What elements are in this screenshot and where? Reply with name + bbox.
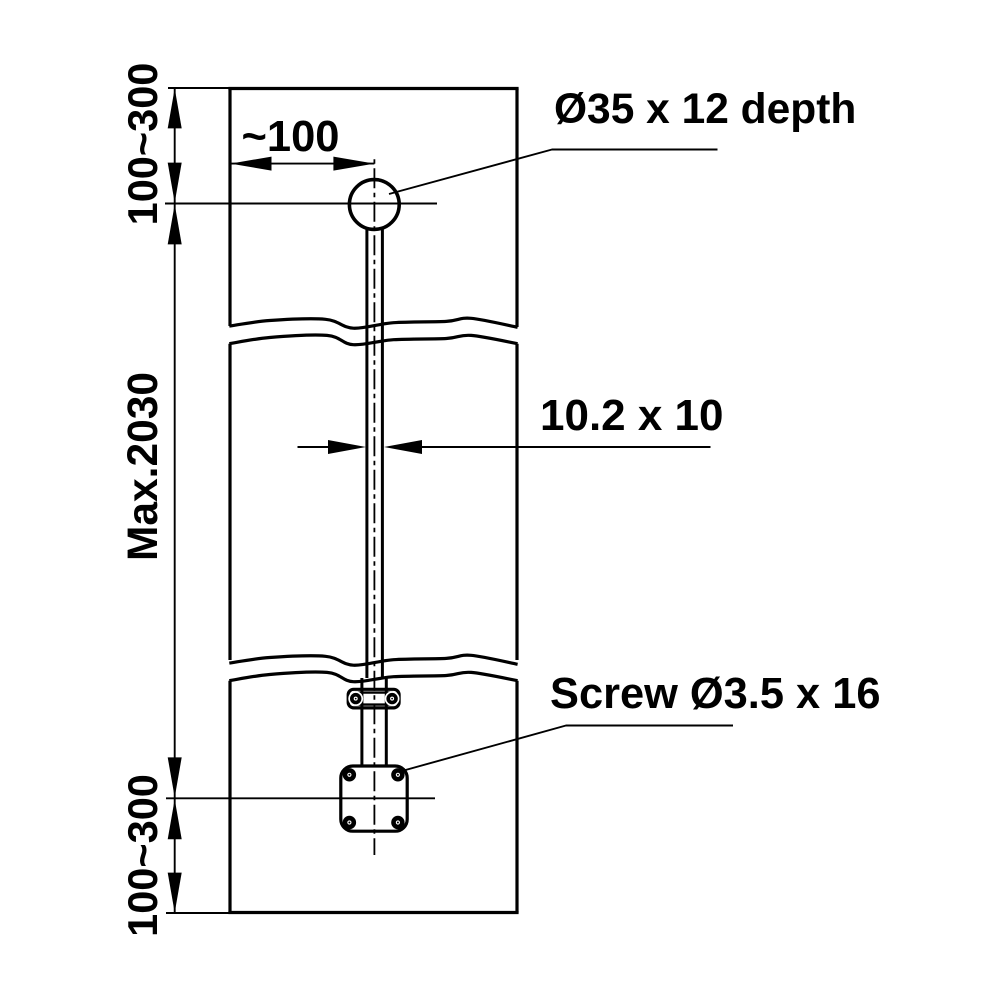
svg-text:Max.2030: Max.2030 <box>120 372 167 561</box>
bottom extension line <box>166 912 230 914</box>
leader line to Ø35 label <box>389 150 718 195</box>
arrow right of ~100 <box>333 157 374 171</box>
bracket screw left <box>348 691 363 706</box>
svg-text:10.2 x 10: 10.2 x 10 <box>540 391 724 440</box>
break line (lower wave of first break) <box>229 335 517 345</box>
rod (lower spindle section, wider double line) <box>362 678 386 766</box>
break line (lower wave of second break) <box>229 672 517 682</box>
dimension line 10.2 x 10 (left segment) <box>298 446 330 448</box>
clamp bracket inner outline <box>352 693 395 705</box>
door panel section 2 outline <box>230 344 517 660</box>
door panel section 3 outline <box>228 681 518 913</box>
clamp bracket <box>348 689 399 708</box>
circle horizontal centerline <box>165 203 437 205</box>
plate screw top-right <box>391 768 404 781</box>
arrow down at panel bottom <box>168 873 182 913</box>
leader line to Screw label <box>406 726 734 771</box>
arrowheads <box>168 88 422 912</box>
arrow down at circle centerline <box>168 163 182 203</box>
bracket screw right <box>385 691 400 706</box>
arrow pointing left at rod right edge <box>384 440 422 454</box>
vertical dimension line <box>174 88 176 914</box>
plate screw top-left <box>343 768 356 781</box>
arrow down at plate centerline <box>168 757 182 797</box>
vertical dash-dot centerline <box>373 158 375 855</box>
svg-text:100~300: 100~300 <box>119 774 166 937</box>
break line (upper wave of first break) <box>229 318 517 328</box>
rod (upper/middle sections, double line) <box>367 229 383 678</box>
svg-text:~100: ~100 <box>242 113 340 161</box>
arrow left of ~100 <box>231 157 272 171</box>
top extension line <box>168 87 230 89</box>
mounting plate <box>341 766 407 831</box>
dimension line 10.2 x 10 (right segment) <box>421 446 711 448</box>
top pivot circle (35 mm cup) <box>349 180 399 230</box>
dimension line ~100 <box>230 163 374 165</box>
arrow up at panel top <box>168 88 182 128</box>
plate screw bottom-left <box>343 816 356 829</box>
door panel section 1 outline <box>228 89 518 328</box>
arrow up below plate centerline <box>168 799 182 839</box>
arrow up below circle centerline <box>168 204 182 244</box>
arrow pointing right at rod left edge <box>328 440 366 454</box>
break line (upper wave of second break) <box>229 655 517 665</box>
svg-text:Ø35 x 12 depth: Ø35 x 12 depth <box>554 86 856 133</box>
plate screw bottom-right <box>391 816 404 829</box>
svg-text:100~300: 100~300 <box>119 63 166 226</box>
plate horizontal centerline <box>166 797 435 799</box>
svg-text:Screw Ø3.5 x 16: Screw Ø3.5 x 16 <box>550 670 880 718</box>
